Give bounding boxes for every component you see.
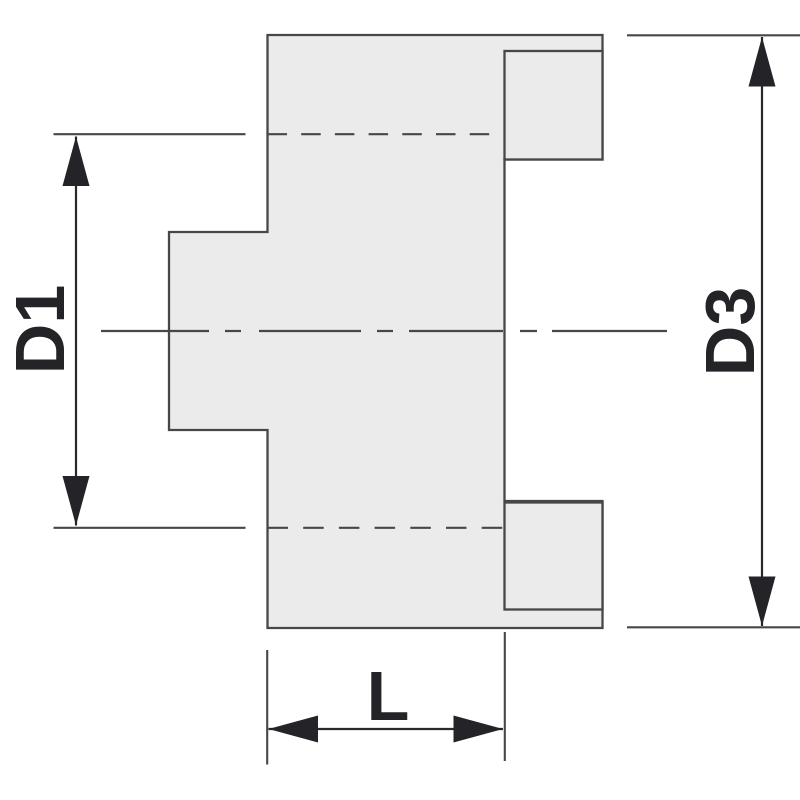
- top flange block outline: [505, 51, 603, 160]
- hidden line upper (dashed): [268, 133, 496, 135]
- D3 arrowhead down: [749, 577, 776, 627]
- D3 dimension line: [761, 37, 763, 626]
- L arrowhead left: [269, 716, 319, 743]
- D1 extension line top: [54, 133, 246, 135]
- hidden line lower (dashed): [268, 527, 505, 529]
- svg-text:L: L: [367, 657, 410, 735]
- D1 extension line bottom: [54, 527, 246, 529]
- bottom flange block outline: [505, 503, 603, 610]
- svg-text:D3: D3: [691, 287, 769, 376]
- L extension line left: [266, 650, 268, 765]
- D3 arrowhead up: [749, 37, 776, 87]
- D3 extension line bottom: [627, 626, 800, 628]
- L dimension line: [269, 728, 504, 730]
- svg-text:D1: D1: [1, 285, 79, 374]
- part silhouette fill: [169, 35, 603, 628]
- center line (dash-dot): [101, 330, 667, 332]
- L extension line right: [504, 632, 506, 761]
- D1 arrowhead down: [63, 476, 90, 526]
- D1 arrowhead up: [63, 137, 90, 187]
- D1 dimension line: [75, 137, 77, 526]
- D3 extension line top: [627, 34, 800, 36]
- L arrowhead right: [454, 716, 504, 743]
- part outline: [169, 35, 603, 628]
